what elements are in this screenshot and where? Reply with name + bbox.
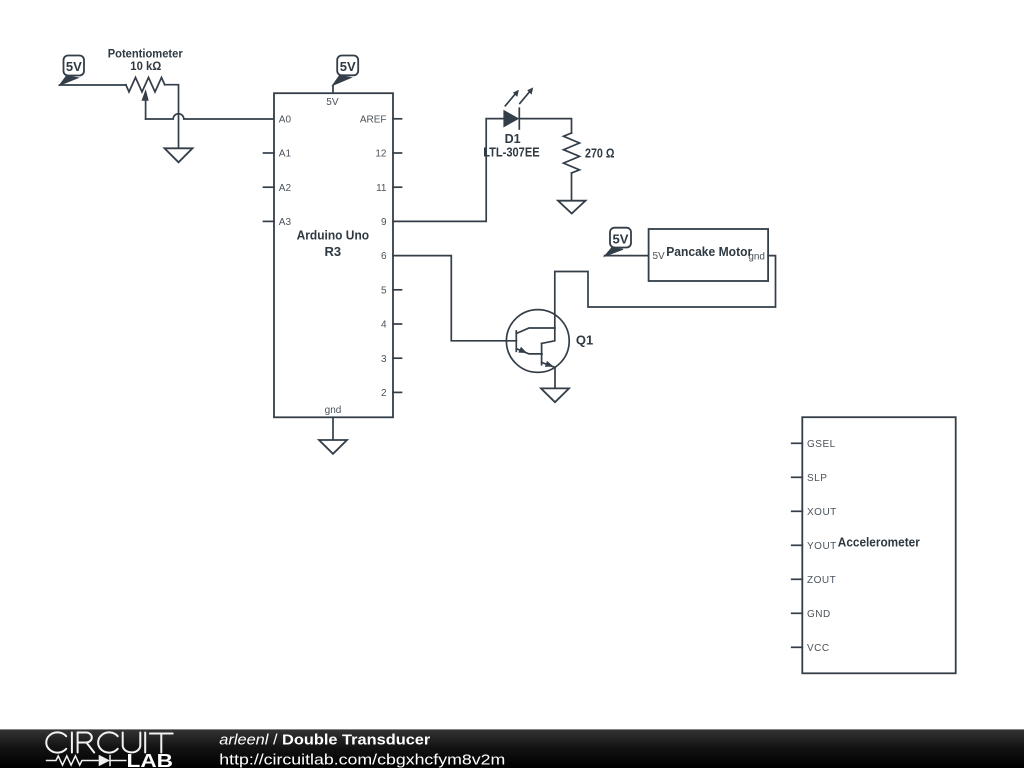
pin stub 4 xyxy=(393,323,402,325)
svg-text:Arduino Uno: Arduino Uno xyxy=(297,228,370,243)
CircuitLab logo: CIRCUIT wordmark xyxy=(46,732,172,752)
svg-text:12: 12 xyxy=(375,149,387,160)
potentiometer R1 body xyxy=(126,77,165,119)
svg-text:http://circuitlab.com/cbgxhcfy: http://circuitlab.com/cbgxhcfym8v2m xyxy=(219,751,505,768)
base bar T1 xyxy=(515,331,517,351)
pin stub GSEL xyxy=(792,442,803,444)
pin stub 2 xyxy=(393,391,402,393)
pin stub 11 xyxy=(393,186,402,188)
pin stub XOUT xyxy=(792,510,803,512)
svg-text:11: 11 xyxy=(376,183,387,194)
wire Arduino pin 6 to Q1 base xyxy=(393,256,516,341)
ground (Arduino) xyxy=(319,440,347,454)
pin stub A1 xyxy=(264,152,275,154)
svg-text:Pancake Motor: Pancake Motor xyxy=(666,244,752,259)
svg-text:A1: A1 xyxy=(279,149,292,160)
wire resistor to ground xyxy=(571,173,573,201)
wire pot wiper to Arduino A0 with hop over ground wire xyxy=(146,114,274,119)
T2 emitter with arrow xyxy=(542,362,555,367)
svg-text:5: 5 xyxy=(381,285,387,296)
svg-text:GND: GND xyxy=(807,609,831,620)
wire 5V flag to Arduino top pin xyxy=(332,85,334,93)
pin stub A2 xyxy=(264,186,275,188)
svg-text:Accelerometer: Accelerometer xyxy=(838,534,920,549)
power flag 5V (potentiometer supply) xyxy=(60,56,85,86)
Pancake Motor M1 xyxy=(649,229,769,281)
pin stub AREF xyxy=(393,118,402,120)
wire 5V flag to potentiometer left terminal xyxy=(60,84,127,86)
label Potentiometer 10 kΩ xyxy=(108,47,183,73)
svg-text:A2: A2 xyxy=(279,183,292,194)
svg-text:5V: 5V xyxy=(613,231,629,246)
wire Arduino gnd pin down xyxy=(332,417,334,440)
svg-text:VCC: VCC xyxy=(807,643,830,654)
svg-text:AREF: AREF xyxy=(360,114,387,125)
wire 5V flag to motor 5V pin xyxy=(605,255,649,257)
svg-text:A0: A0 xyxy=(279,114,292,125)
svg-text:LTL-307EE: LTL-307EE xyxy=(483,146,539,160)
svg-text:3: 3 xyxy=(381,354,387,365)
transistor Q1 (NPN Darlington) xyxy=(506,310,569,373)
resistor 270Ω xyxy=(564,133,580,173)
pin stub YOUT xyxy=(792,544,803,546)
svg-text:A3: A3 xyxy=(279,217,292,228)
svg-text:5V: 5V xyxy=(66,59,82,74)
ground (LED resistor) xyxy=(558,201,586,214)
wire Q1 emitter to ground xyxy=(554,368,556,389)
svg-text:270 Ω: 270 Ω xyxy=(585,147,615,161)
power flag 5V (Arduino) xyxy=(333,56,359,86)
svg-text:gnd: gnd xyxy=(325,405,342,416)
svg-text:10 kΩ: 10 kΩ xyxy=(130,59,161,73)
pin stub VCC xyxy=(792,646,803,648)
light emission arrows xyxy=(505,93,516,106)
Accelerometer module U2 xyxy=(792,417,956,673)
T1 emitter with arrow xyxy=(516,349,542,354)
svg-text:4: 4 xyxy=(381,320,387,331)
svg-text:LAB: LAB xyxy=(127,751,174,768)
svg-text:ZOUT: ZOUT xyxy=(807,575,836,586)
svg-text:5V: 5V xyxy=(326,97,339,108)
power flag 5V (motor supply) xyxy=(605,228,631,257)
svg-text:6: 6 xyxy=(381,251,387,262)
T2 collector xyxy=(542,328,555,343)
svg-text:YOUT: YOUT xyxy=(807,541,837,552)
wire LED cathode to resistor xyxy=(519,119,571,133)
svg-text:GSEL: GSEL xyxy=(807,439,836,450)
svg-text:arleenl / Double Transducer: arleenl / Double Transducer xyxy=(219,731,430,748)
wire Arduino pin 9 to LED anode xyxy=(393,119,503,222)
svg-text:XOUT: XOUT xyxy=(807,507,837,518)
svg-text:5V: 5V xyxy=(340,59,356,74)
pin stub SLP xyxy=(792,476,803,478)
pin stub 3 xyxy=(393,357,402,359)
svg-text:9: 9 xyxy=(381,217,387,228)
T1 collector xyxy=(516,328,555,334)
ground GND (potentiometer) xyxy=(165,148,193,162)
CircuitLab logo: resistor-diode symbol xyxy=(46,755,127,766)
svg-text:D1: D1 xyxy=(505,132,521,146)
pin stub 5 xyxy=(393,289,402,291)
ground (Q1) xyxy=(541,388,569,402)
wire motor gnd to Q1 collector xyxy=(555,256,776,328)
label D1 LTL-307EE xyxy=(483,132,539,160)
svg-text:Q1: Q1 xyxy=(576,333,593,348)
base bar T2 xyxy=(541,343,543,364)
pin stub GND xyxy=(792,612,803,614)
pin stub ZOUT xyxy=(792,578,803,580)
Arduino Uno R3 module U1 xyxy=(264,93,402,417)
svg-text:2: 2 xyxy=(381,388,387,399)
svg-text:R3: R3 xyxy=(324,244,341,259)
LED D1 xyxy=(503,87,533,129)
pin stub 12 xyxy=(393,152,402,154)
wire pot right terminal down to ground xyxy=(165,85,179,149)
svg-text:SLP: SLP xyxy=(807,473,827,484)
svg-text:5V: 5V xyxy=(653,251,666,262)
pin stub A3 xyxy=(264,220,275,222)
